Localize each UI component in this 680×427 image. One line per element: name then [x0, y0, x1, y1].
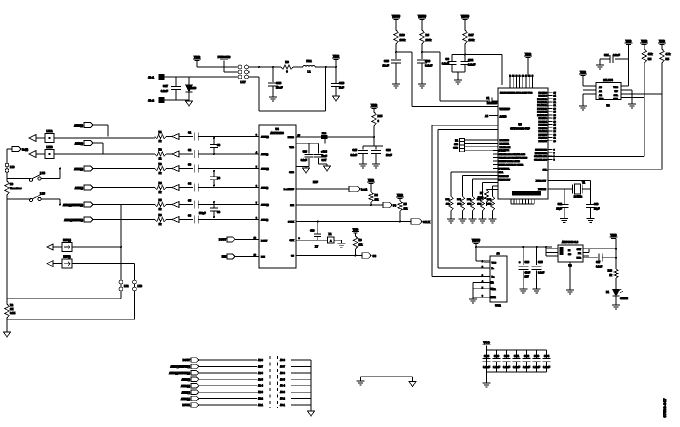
svg-text:SDA: SDA [499, 171, 504, 174]
svg-text:VDD: VDD [289, 147, 294, 149]
svg-text:IFCLK: IFCLK [499, 151, 506, 153]
svg-text:GND: GND [289, 172, 294, 174]
svg-text:LK5: LK5 [40, 191, 45, 195]
svg-text:16V: 16V [525, 276, 530, 279]
svg-text:4.7k: 4.7k [648, 53, 653, 56]
svg-text:R15: R15 [378, 114, 383, 118]
svg-text:560pF: 560pF [199, 213, 206, 215]
svg-text:VDD: VDD [194, 55, 201, 59]
svg-text:C13: C13 [384, 59, 390, 63]
svg-text:VDD: VDD [353, 228, 359, 232]
svg-text:C23: C23 [303, 151, 308, 154]
svg-text:VDD: VDD [641, 39, 647, 43]
svg-text:SCLK: SCLK [423, 220, 430, 224]
svg-text:J1-1: J1-1 [148, 76, 154, 80]
svg-text:CTL2/FLAGC PA4/FIFOADR0: CTL2/FLAGC PA4/FIFOADR0 [499, 157, 528, 160]
svg-text:1M: 1M [10, 308, 13, 311]
svg-text:J2-5: J2-5 [258, 378, 263, 381]
svg-text:C17: C17 [163, 84, 169, 88]
svg-text:VDD: VDD [610, 233, 617, 237]
svg-text:0.1uF: 0.1uF [483, 365, 490, 369]
svg-text:J2-3: J2-3 [258, 391, 263, 394]
svg-text:C21: C21 [604, 53, 609, 57]
svg-text:R17: R17 [469, 33, 475, 37]
svg-text:0.1uF: 0.1uF [442, 62, 450, 66]
svg-text:0.1uF: 0.1uF [425, 64, 433, 68]
svg-text:VCC: VCC [483, 341, 490, 345]
svg-text:AIN2(-): AIN2(-) [75, 143, 83, 146]
svg-text:Iin(T): Iin(T) [22, 149, 28, 152]
svg-text:LK7: LK7 [240, 80, 246, 84]
svg-text:0.1uF: 0.1uF [538, 272, 545, 275]
svg-text:LK6: LK6 [10, 166, 15, 169]
svg-text:J3-6: J3-6 [280, 372, 285, 375]
svg-text:VDD: VDD [525, 52, 532, 56]
svg-text:J2-8: J2-8 [258, 359, 263, 362]
svg-text:AIN2(-): AIN2(-) [261, 187, 268, 190]
svg-text:SCL: SCL [614, 95, 619, 97]
svg-text:VDD: VDD [368, 178, 374, 182]
svg-text:U5: U5 [518, 123, 522, 127]
svg-text:PA2/SLOE: PA2/SLOE [500, 146, 511, 149]
svg-text:J3-2: J3-2 [280, 398, 285, 401]
svg-text:0.1uF: 0.1uF [596, 266, 603, 269]
svg-text:FB1: FB1 [306, 59, 312, 63]
svg-text:0.1uF: 0.1uF [613, 53, 620, 57]
svg-text:PA5/FIFOADR1 SLRD: PA5/FIFOADR1 SLRD [499, 160, 521, 163]
svg-text:0.1uF: 0.1uF [350, 154, 357, 157]
svg-text:R6: R6 [426, 33, 430, 37]
svg-text:J3-3: J3-3 [280, 391, 285, 394]
svg-text:10uF: 10uF [386, 154, 392, 157]
svg-text:6.3V: 6.3V [322, 160, 327, 162]
svg-text:J3-4: J3-4 [280, 385, 285, 388]
svg-text:PD3/FD11: PD3/FD11 [537, 102, 547, 104]
svg-text:USB: USB [495, 304, 501, 308]
svg-text:PA0/INT0: PA0/INT0 [500, 139, 510, 142]
svg-text:CTL0/FLAGA CTL1/FLAGB: CTL0/FLAGA CTL1/FLAGB [499, 153, 526, 156]
svg-text:SCLK: SCLK [288, 222, 294, 224]
svg-text:C29: C29 [494, 354, 500, 358]
svg-text:C27: C27 [596, 261, 601, 264]
svg-text:0.1uF: 0.1uF [533, 365, 540, 369]
svg-text:PD0/FD8: PD0/FD8 [538, 92, 547, 94]
svg-text:0.1uF: 0.1uF [493, 365, 500, 369]
svg-text:0.1uF: 0.1uF [543, 365, 550, 369]
svg-text:DVDD: DVDD [288, 137, 295, 139]
svg-text:AIN1(-): AIN1(-) [261, 153, 268, 156]
svg-text:RESET#: RESET# [487, 101, 498, 105]
svg-text:C34: C34 [544, 354, 550, 358]
svg-text:C16: C16 [386, 149, 391, 152]
svg-text:VDD: VDD [580, 70, 586, 74]
svg-text:VDD: VDD [626, 39, 632, 43]
svg-text:RDY1/SLWR: RDY1/SLWR [535, 153, 548, 155]
svg-text:0.1uF: 0.1uF [513, 365, 520, 369]
svg-text:P9: P9 [393, 204, 397, 208]
svg-text:WAKEUP: WAKEUP [500, 108, 511, 111]
svg-text:CLK: CLK [290, 240, 295, 242]
svg-text:AIN1(-): AIN1(-) [181, 390, 190, 394]
svg-text:C10: C10 [425, 59, 431, 63]
svg-text:0.1uF: 0.1uF [523, 365, 530, 369]
svg-text:C19: C19 [339, 81, 345, 85]
svg-text:PB4/FD4: PB4/FD4 [538, 130, 547, 133]
svg-text:GND: GND [453, 148, 458, 150]
svg-text:J2-1: J2-1 [258, 404, 263, 407]
svg-text:NR: NR [578, 253, 582, 255]
svg-text:10k: 10k [359, 244, 364, 247]
svg-text:22pF: 22pF [594, 208, 600, 211]
svg-text:J2-7: J2-7 [258, 365, 263, 368]
svg-text:VDD: VDD [397, 193, 403, 197]
svg-text:C9: C9 [445, 57, 449, 61]
svg-text:100k: 100k [400, 38, 406, 42]
svg-text:ERR: ERR [577, 258, 582, 260]
svg-text:REF(+): REF(+) [63, 239, 71, 242]
svg-text:PD7/FD15: PD7/FD15 [499, 176, 510, 178]
svg-text:GREEN: GREEN [620, 298, 628, 300]
svg-text:C30: C30 [504, 354, 510, 358]
svg-text:AIN3(+)/REFIN(+): AIN3(+)/REFIN(+) [63, 204, 83, 207]
svg-text:AIN2(-): AIN2(-) [181, 377, 190, 381]
svg-text:C18: C18 [276, 81, 282, 85]
svg-text:RDY0/SLRD: RDY0/SLRD [535, 150, 547, 152]
svg-text:DIN: DIN [222, 256, 227, 259]
svg-text:LK1A: LK1A [46, 130, 53, 133]
svg-text:DOUT: DOUT [261, 241, 268, 243]
svg-text:CTL1/FLAGB: CTL1/FLAGB [534, 155, 547, 158]
svg-text:AIN1(+): AIN1(+) [261, 136, 269, 139]
svg-text:PD6/FD14: PD6/FD14 [537, 111, 548, 114]
svg-text:SDA: SDA [613, 98, 618, 101]
svg-text:PD2/FD10: PD2/FD10 [537, 99, 548, 101]
svg-text:VCC: VCC [613, 87, 618, 89]
svg-text:CTL2/FLAGC: CTL2/FLAGC [534, 158, 547, 161]
svg-text:J2-4: J2-4 [258, 385, 263, 388]
svg-text:22pF: 22pF [556, 208, 562, 211]
svg-text:0.1uF: 0.1uF [161, 89, 169, 93]
svg-text:Thermistor: Thermistor [10, 187, 22, 190]
svg-text:J2-2: J2-2 [258, 398, 263, 401]
svg-text:C28: C28 [484, 354, 490, 358]
svg-text:XTALIN: XTALIN [538, 188, 546, 191]
svg-text:C20: C20 [310, 230, 315, 233]
svg-text:CS: CS [373, 254, 377, 258]
svg-text:100k: 100k [469, 38, 475, 42]
svg-text:DOUT: DOUT [219, 238, 227, 241]
svg-text:AGND: AGND [500, 116, 507, 119]
svg-text:PWRGND: PWRGND [218, 55, 231, 59]
svg-text:VSS: VSS [599, 99, 604, 101]
svg-text:AIN2(+): AIN2(+) [261, 168, 269, 171]
svg-text:J3-5: J3-5 [280, 378, 285, 381]
svg-text:VDD: VDD [659, 39, 665, 43]
svg-text:AIN3(-)/REFIN(-): AIN3(-)/REFIN(-) [64, 219, 83, 222]
svg-text:Iout1/REF: Iout1/REF [284, 188, 295, 191]
svg-text:PB7/FD7: PB7/FD7 [538, 141, 547, 143]
svg-text:AIN1(+): AIN1(+) [74, 168, 83, 171]
svg-text:LK4: LK4 [40, 171, 45, 175]
svg-text:C22: C22 [468, 58, 474, 62]
svg-text:C31: C31 [514, 354, 520, 358]
svg-text:PB1/FD1: PB1/FD1 [538, 121, 547, 123]
svg-text:VDD: VDD [371, 103, 378, 107]
svg-text:PD4/FD12: PD4/FD12 [537, 104, 548, 107]
svg-text:VBUS: VBUS [392, 14, 400, 18]
svg-text:DIN: DIN [290, 205, 294, 207]
svg-text:PE0/T0OUT: PE0/T0OUT [499, 180, 511, 182]
svg-text:AIN3(+): AIN3(+) [261, 204, 269, 207]
svg-text:4.7k: 4.7k [666, 53, 671, 56]
svg-text:VBUS: VBUS [418, 14, 426, 18]
svg-text:AIN3(-)/REFIN(-): AIN3(-)/REFIN(-) [170, 365, 190, 369]
svg-text:VCC: VCC [492, 263, 497, 265]
svg-text:AIN3(+)/REFIN(+): AIN3(+)/REFIN(+) [169, 371, 190, 375]
svg-text:PB2/FD2: PB2/FD2 [538, 125, 547, 127]
svg-text:R18: R18 [608, 270, 613, 273]
svg-text:VDD: VDD [333, 54, 340, 58]
svg-text:J3-7: J3-7 [280, 365, 285, 368]
svg-text:XTALOUT: XTALOUT [536, 179, 547, 182]
svg-text:+C24: +C24 [321, 151, 327, 154]
svg-text:WP: WP [614, 91, 618, 93]
svg-text:AIN1(+): AIN1(+) [181, 397, 190, 401]
svg-text:IFCLK/SCL: IFCLK/SCL [499, 169, 511, 171]
svg-text:DIN: DIN [261, 257, 265, 259]
svg-text:C33: C33 [534, 354, 540, 358]
svg-text:10uF: 10uF [276, 86, 283, 90]
svg-text:D19: D19 [191, 86, 197, 90]
svg-text:AIN1(-): AIN1(-) [75, 187, 83, 190]
svg-text:DPLUS DMINUS AVCC AGND VCC: DPLUS DMINUS AVCC AGND VCC [500, 92, 533, 95]
svg-text:SCL: SCL [543, 169, 548, 171]
svg-text:10k: 10k [375, 199, 380, 202]
svg-text:10k: 10k [404, 208, 409, 211]
svg-text:Iout1: Iout1 [361, 188, 368, 192]
svg-text:PD5/FD13: PD5/FD13 [537, 108, 548, 110]
svg-text:AIN2(+): AIN2(+) [181, 384, 190, 388]
svg-text:+: + [519, 260, 521, 264]
svg-text:C15: C15 [352, 149, 357, 152]
svg-text:VBUS: VBUS [472, 238, 480, 242]
svg-text:J1-2: J1-2 [148, 99, 154, 103]
svg-text:VBUS: VBUS [461, 14, 469, 18]
svg-text:D-: D- [492, 268, 495, 270]
svg-text:PB6/FD6: PB6/FD6 [538, 138, 547, 140]
svg-text:C32: C32 [524, 354, 530, 358]
svg-text:R16: R16 [400, 33, 406, 37]
svg-text:ADP3303-3.3: ADP3303-3.3 [562, 240, 579, 244]
svg-text:J3-1: J3-1 [280, 404, 285, 407]
svg-text:IOUT1: IOUT1 [182, 403, 190, 407]
svg-text:0.1uF: 0.1uF [301, 159, 308, 162]
svg-text:0.1%: 0.1% [10, 313, 15, 315]
svg-text:LK3: LK3 [138, 285, 143, 288]
svg-text:24LC64: 24LC64 [603, 78, 613, 82]
svg-text:PD7/FD15: PD7/FD15 [537, 115, 548, 117]
svg-text:10uF: 10uF [322, 156, 328, 158]
svg-text:REF: REF [313, 181, 318, 184]
svg-text:LK1B: LK1B [46, 146, 53, 149]
svg-text:C33: C33 [594, 203, 599, 206]
svg-text:J2-6: J2-6 [258, 372, 263, 375]
svg-text:PD1/FD9: PD1/FD9 [538, 96, 547, 98]
svg-text:C25: C25 [538, 261, 543, 264]
svg-text:07506-047: 07506-047 [662, 398, 667, 418]
svg-text:AD7798/99: AD7798/99 [270, 131, 284, 135]
svg-text:LK2: LK2 [124, 285, 129, 288]
svg-text:100k: 100k [426, 38, 432, 42]
svg-text:47uF: 47uF [525, 272, 531, 275]
svg-text:U4: U4 [275, 127, 279, 131]
svg-text:AIN2(+): AIN2(+) [74, 125, 83, 128]
svg-text:DOUT: DOUT [183, 358, 191, 362]
svg-text:PB5/FD5: PB5/FD5 [538, 134, 547, 136]
svg-text:AIN3(-): AIN3(-) [261, 219, 268, 222]
svg-text:XT: XT [315, 246, 319, 249]
svg-text:24 MHz: 24 MHz [574, 196, 583, 199]
svg-text:C26: C26 [525, 261, 530, 264]
svg-text:0.1uF: 0.1uF [503, 365, 510, 369]
svg-text:PB3/FD3: PB3/FD3 [538, 128, 547, 130]
svg-text:OUT: OUT [577, 249, 582, 251]
svg-text:1uF: 1uF [339, 86, 344, 90]
svg-text:2.2uF: 2.2uF [468, 63, 476, 67]
svg-text:R9: R9 [285, 60, 289, 64]
svg-text:J3-8: J3-8 [280, 359, 285, 362]
svg-text:PB0/FD0: PB0/FD0 [538, 118, 547, 120]
svg-text:PA7/FLAGD/SLCS SLWR: PA7/FLAGD/SLCS SLWR [499, 164, 524, 167]
svg-text:10uF: 10uF [382, 64, 389, 68]
svg-text:SD: SD [568, 254, 571, 256]
svg-text:CY7C68013-56P: CY7C68013-56P [510, 127, 530, 131]
svg-text:PA1/INT1: PA1/INT1 [500, 142, 510, 145]
svg-text:C32: C32 [558, 203, 563, 206]
svg-text:U6: U6 [606, 104, 610, 108]
svg-text:CS: CS [291, 256, 295, 258]
svg-text:REF(-): REF(-) [63, 256, 70, 259]
